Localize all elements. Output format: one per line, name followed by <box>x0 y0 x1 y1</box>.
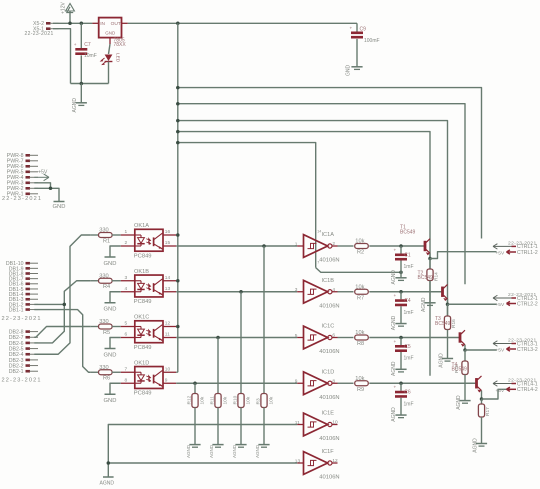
resistor R11 pulldown <box>209 338 228 445</box>
ground GND (OK1D cathode) <box>104 383 121 404</box>
connector pin PWR-6 <box>7 164 38 170</box>
svg-text:IC1E: IC1E <box>322 411 335 417</box>
node base junction <box>399 244 403 248</box>
resistor R7 10k <box>355 284 369 301</box>
resistor R9 10k <box>355 376 369 393</box>
ground AGND (R10) <box>232 444 246 458</box>
ground AGND (C1) <box>391 270 406 285</box>
svg-text:BC549: BC549 <box>435 321 451 327</box>
connector pin DB2-2 <box>9 363 38 369</box>
ground AGND (C6) <box>391 407 406 422</box>
node base junction <box>399 382 403 386</box>
svg-text:C1: C1 <box>404 252 411 258</box>
connector pin PWR-8 <box>7 153 38 159</box>
svg-text:AGND: AGND <box>100 481 115 487</box>
supply arrow on PWR-4 (+12V) <box>34 176 49 178</box>
node pulldown junction <box>239 290 243 294</box>
optocoupler OK1D PC849 <box>121 360 176 396</box>
connector pin CTRL2-1 <box>493 295 538 302</box>
svg-text:PC849: PC849 <box>134 299 152 305</box>
svg-text:5: 5 <box>295 333 298 339</box>
node DB1-2 junction <box>63 303 67 307</box>
svg-text:C6: C6 <box>404 390 411 396</box>
svg-text:+5V: +5V <box>496 348 505 354</box>
resistor R8 10k <box>355 330 369 347</box>
svg-text:40106N: 40106N <box>319 475 339 481</box>
svg-text:CTRL2-2: CTRL2-2 <box>517 301 538 307</box>
ground AGND (R15) <box>456 395 471 410</box>
svg-text:R9: R9 <box>357 387 364 393</box>
svg-text:GND: GND <box>104 398 117 404</box>
wire down to AGND <box>80 84 82 103</box>
ground GND (C9) <box>346 65 363 77</box>
svg-text:2: 2 <box>332 241 335 247</box>
svg-text:330: 330 <box>99 228 109 234</box>
wire DB2-7 to R5 (channel 3 input) <box>34 327 90 338</box>
svg-text:10mF: 10mF <box>84 53 97 59</box>
wire OK1B collector to +5V bus <box>176 280 178 282</box>
ground AGND (C5) <box>391 361 406 376</box>
ground GND (PWR connector) <box>53 202 66 210</box>
wire DB2-6 to R4 (channel 2 input) <box>34 281 90 343</box>
wire OK1C collector to +5V bus <box>176 326 178 328</box>
connector pin DB2-5 <box>9 346 38 352</box>
svg-text:10k: 10k <box>222 396 228 404</box>
resistor R2 10k <box>355 239 369 256</box>
svg-text:22-23-2021: 22-23-2021 <box>2 378 42 384</box>
svg-text:OK1D: OK1D <box>134 360 149 366</box>
svg-text:OK1A: OK1A <box>134 223 149 229</box>
svg-text:IN: IN <box>100 21 105 27</box>
transistor T2 BC549 <box>418 270 448 301</box>
svg-text:330: 330 <box>99 365 109 371</box>
svg-text:OK1B: OK1B <box>134 269 149 275</box>
connector pin DB1-2 <box>9 302 38 308</box>
svg-text:OK1C: OK1C <box>134 315 149 321</box>
svg-text:10k: 10k <box>355 330 364 336</box>
svg-text:GND: GND <box>105 31 116 36</box>
connector pin DB1-5 <box>9 287 38 293</box>
svg-text:15: 15 <box>165 240 171 246</box>
wire OK1D emitter to gate IC1D input <box>176 382 297 384</box>
ground AGND (R3) <box>255 444 269 458</box>
resistor R1 330 <box>91 228 121 245</box>
svg-text:10: 10 <box>332 420 338 426</box>
wire unused gate inputs to AGND <box>108 425 297 478</box>
svg-text:OUT: OUT <box>111 21 121 27</box>
resistor R3 pulldown <box>255 246 274 444</box>
svg-text:AGND: AGND <box>255 444 260 458</box>
net label +5V / connector pin CTRL3-2 <box>496 347 538 354</box>
connector pin DB2-8 <box>9 330 38 336</box>
resistor R15 emitter load <box>454 350 468 400</box>
wire OK1A emitter to gate IC1A input <box>176 245 297 247</box>
svg-text:BC549: BC549 <box>400 229 416 235</box>
svg-text:R7: R7 <box>357 295 364 301</box>
svg-text:GND: GND <box>104 261 117 267</box>
ground AGND (R17) <box>473 438 488 453</box>
svg-text:22-23-2021: 22-23-2021 <box>2 196 42 202</box>
svg-text:LED: LED <box>116 53 121 63</box>
wire T1 emitter to CTRL1-2 <box>430 252 497 259</box>
svg-text:AGND: AGND <box>186 444 191 458</box>
wire DB1-1 to R6 (channel 4 input) <box>34 310 90 373</box>
wire R9 to T4 base <box>369 382 476 384</box>
node +5V bus junction <box>176 22 180 26</box>
svg-text:IC1A: IC1A <box>322 232 335 238</box>
capacitor C5 1mF <box>394 338 414 370</box>
svg-text:+5V: +5V <box>38 170 48 176</box>
svg-text:CTRL1-2: CTRL1-2 <box>517 250 538 256</box>
resistor R14 emitter load <box>427 259 440 303</box>
connector pin DB2-1 <box>9 369 38 375</box>
resistor R4 330 <box>91 273 121 290</box>
svg-text:7: 7 <box>317 261 319 265</box>
node bus junction <box>176 279 180 283</box>
connector pin PWR-3 <box>7 181 38 187</box>
capacitor C7 10mF <box>74 23 97 83</box>
ground AGND (C4) <box>391 315 406 330</box>
svg-text:4: 4 <box>125 286 128 292</box>
voltage regulator IC 7805 <box>92 18 127 49</box>
svg-text:+5V: +5V <box>496 388 505 394</box>
wire T3 emitter <box>464 345 466 350</box>
svg-text:PC849: PC849 <box>134 391 152 397</box>
inverter IC1B 40106N <box>295 278 340 309</box>
wire OK1D collector to +5V bus <box>176 371 178 373</box>
wire ground rail under regulator <box>71 83 109 85</box>
svg-text:R8: R8 <box>357 341 364 347</box>
node bus junction <box>176 102 180 106</box>
svg-text:10k: 10k <box>355 376 364 382</box>
svg-text:40106N: 40106N <box>319 258 339 264</box>
svg-text:1mF: 1mF <box>404 356 414 362</box>
svg-text:R12: R12 <box>186 395 192 404</box>
ground AGND (unused gates) <box>100 477 115 487</box>
svg-text:C5: C5 <box>404 344 411 350</box>
wire +5V feed to T2 collector <box>178 121 448 330</box>
resistor R12 pulldown <box>186 383 205 444</box>
supply +12V symbol <box>61 2 75 24</box>
svg-text:GND: GND <box>104 307 117 313</box>
svg-text:+5V: +5V <box>496 251 505 257</box>
svg-text:14: 14 <box>317 230 321 234</box>
svg-text:PC849: PC849 <box>134 253 152 259</box>
wire gate output to R2 <box>338 245 354 247</box>
svg-text:1: 1 <box>295 241 298 247</box>
svg-text:AGND: AGND <box>391 270 397 285</box>
wire OK1A collector to +5V bus <box>176 234 178 236</box>
svg-text:AGND: AGND <box>391 407 397 422</box>
svg-text:C4: C4 <box>404 298 411 304</box>
node +12V junction <box>68 22 72 26</box>
ground AGND (R11) <box>209 444 223 458</box>
svg-text:R6: R6 <box>103 376 110 382</box>
svg-text:R11: R11 <box>209 396 215 405</box>
svg-text:CTRL4-2: CTRL4-2 <box>517 387 538 393</box>
svg-text:1mF: 1mF <box>404 401 414 407</box>
wire gate output to R9 <box>338 382 354 384</box>
svg-text:+: + <box>74 42 77 47</box>
svg-text:IC1D: IC1D <box>322 369 335 375</box>
svg-text:10k: 10k <box>199 396 205 404</box>
svg-text:22-23-2021: 22-23-2021 <box>25 31 54 37</box>
ground AGND (R14) <box>421 297 436 312</box>
node bus junction <box>176 130 180 134</box>
svg-text:+5V: +5V <box>496 302 505 308</box>
inverter IC1E 40106N <box>295 411 340 442</box>
wire PWR-3 to ground <box>34 183 50 189</box>
svg-text:IC1C: IC1C <box>322 324 335 330</box>
net label +5V / connector pin CTRL1-2 <box>496 250 538 257</box>
svg-text:13: 13 <box>165 286 171 292</box>
svg-text:14: 14 <box>165 275 171 281</box>
optocoupler OK1C PC849 <box>121 315 176 351</box>
svg-text:R10: R10 <box>232 395 238 404</box>
svg-text:3: 3 <box>125 275 128 281</box>
resistor R16 emitter load <box>444 304 457 358</box>
ground GND (OK1C cathode) <box>104 338 121 359</box>
svg-text:AGND: AGND <box>439 353 445 368</box>
svg-text:R4: R4 <box>103 284 110 290</box>
svg-text:9: 9 <box>295 379 298 385</box>
svg-text:10k: 10k <box>268 396 274 404</box>
node base junction <box>399 336 403 340</box>
svg-text:10k: 10k <box>355 284 364 290</box>
wire +5V feed to IC1 VCC pin14 <box>178 143 316 268</box>
wire gate output to R7 <box>338 291 354 293</box>
connector pin DB1-4 <box>9 292 38 298</box>
node pulldown junction <box>193 382 197 386</box>
node emitter junction <box>463 348 467 352</box>
wire T4 emitter <box>481 391 483 399</box>
svg-text:10k: 10k <box>245 396 251 404</box>
svg-text:R3: R3 <box>255 398 261 404</box>
svg-text:4: 4 <box>332 287 335 293</box>
connector pin PWR-7 <box>7 159 38 165</box>
resistor R5 330 <box>91 319 121 336</box>
node bus junction <box>176 233 180 237</box>
wire X5-1 down to ground rail <box>53 29 71 84</box>
resistor R17 emitter load <box>478 399 491 443</box>
connector pin DB1-7 <box>9 277 38 283</box>
ground AGND (R16) <box>439 353 454 368</box>
inverter IC1A 40106N <box>295 230 340 265</box>
svg-text:AGND: AGND <box>473 438 479 453</box>
svg-text:330: 330 <box>99 319 109 325</box>
connector pin DB2-3 <box>9 358 38 364</box>
ground AGND (R12) <box>186 444 200 458</box>
svg-text:IC1F: IC1F <box>322 449 335 455</box>
svg-text:1mF: 1mF <box>404 264 414 270</box>
net label +5V / connector pin CTRL2-2 <box>496 301 538 308</box>
wire OK1B emitter to gate IC1B input <box>176 291 297 293</box>
svg-text:R17: R17 <box>485 407 491 416</box>
svg-text:R5: R5 <box>103 330 110 336</box>
svg-text:10: 10 <box>165 366 171 372</box>
svg-text:AGND: AGND <box>391 315 397 330</box>
svg-text:6: 6 <box>125 332 128 338</box>
connector pin X5-1 <box>33 27 58 33</box>
wire PWR-2 to ground <box>34 188 59 201</box>
connector pin PWR-5 <box>7 170 38 176</box>
ground GND (OK1A cathode) <box>104 246 121 267</box>
svg-text:+: + <box>394 339 397 344</box>
svg-text:5: 5 <box>125 321 128 327</box>
node C7 top junction <box>80 22 84 26</box>
LED D1 <box>101 44 121 84</box>
svg-text:AGND: AGND <box>209 444 214 458</box>
node base junction <box>399 290 403 294</box>
wire +5V vertical bus <box>177 23 179 372</box>
connector pin DB1-8 <box>9 271 38 277</box>
wire T1 emitter <box>429 253 431 258</box>
connector pin DB1-6 <box>9 282 38 288</box>
node emitter junction <box>480 397 484 401</box>
svg-text:GND: GND <box>104 352 117 358</box>
svg-text:7: 7 <box>125 366 128 372</box>
net label +5V / connector pin CTRL4-2 <box>496 387 538 394</box>
svg-text:DB2-1: DB2-1 <box>9 369 24 375</box>
wire DB1-2 joins channel 2 input <box>34 303 64 305</box>
svg-text:+: + <box>394 385 397 390</box>
wire T2 emitter to CTRL2-2 <box>448 303 497 305</box>
capacitor C1 1mF <box>394 246 414 278</box>
svg-text:22-23-2021: 22-23-2021 <box>2 316 42 322</box>
node emitter junction <box>428 257 432 261</box>
node C1 ground junction <box>399 271 403 275</box>
connector pin PWR-2 <box>7 186 38 192</box>
svg-text:R14: R14 <box>434 272 440 281</box>
connector pin CTRL3-1 <box>493 341 538 348</box>
resistor R10 pulldown <box>232 292 251 445</box>
svg-text:11: 11 <box>165 332 170 338</box>
wire +5V feed to T1 collector <box>178 132 430 376</box>
svg-text:AGND: AGND <box>421 297 427 312</box>
node unused-gate junction <box>107 461 111 465</box>
svg-text:DB1-1: DB1-1 <box>9 307 24 313</box>
wire +5V feed to T3 collector <box>178 104 465 285</box>
connector pin DB2-4 <box>9 352 38 358</box>
capacitor C4 1mF <box>394 292 414 324</box>
connector pin DB1-10 <box>6 261 38 267</box>
connector pin DB1-9 <box>9 266 38 272</box>
svg-text:8: 8 <box>332 378 335 384</box>
svg-text:GND: GND <box>53 204 66 210</box>
wire T3 emitter to CTRL3-2 <box>465 349 497 351</box>
connector pin DB2-7 <box>9 335 38 341</box>
svg-text:8: 8 <box>125 377 128 383</box>
svg-text:40106N: 40106N <box>319 436 339 442</box>
optocoupler OK1A PC849 <box>121 223 176 259</box>
svg-text:CTRL3-2: CTRL3-2 <box>517 347 538 353</box>
svg-text:R2: R2 <box>357 250 364 256</box>
optocoupler OK1B PC849 <box>121 269 176 305</box>
inverter IC1F 40106N <box>295 449 340 480</box>
svg-text:1: 1 <box>125 229 128 235</box>
wire R8 to T3 base <box>369 337 460 339</box>
wire OK1C emitter to gate IC1C input <box>176 337 297 339</box>
wire R7 to T2 base <box>369 291 442 293</box>
svg-text:12: 12 <box>165 321 171 327</box>
svg-text:AGND: AGND <box>391 361 397 376</box>
connector pin PWR-1 <box>7 192 38 198</box>
svg-text:BC549: BC549 <box>452 367 468 373</box>
transistor T1 BC549 <box>400 225 430 256</box>
wire R2 to T1 base <box>369 245 425 247</box>
wire DB2-4 to R1 (channel 1 input) <box>34 235 90 354</box>
svg-text:3: 3 <box>295 287 298 293</box>
transistor T4 BC549 <box>452 362 482 393</box>
wire +5V feed to T4 collector <box>178 88 482 239</box>
wire X5-2 to 7805 IN <box>53 22 92 24</box>
ground GND (OK1B cathode) <box>104 292 121 313</box>
node ground rail junction <box>80 82 84 86</box>
ground AGND (power section) <box>72 98 87 113</box>
capacitor C6 1mF <box>394 383 414 415</box>
svg-text:BC549: BC549 <box>418 275 434 281</box>
transistor T3 BC549 <box>435 316 465 347</box>
node bus junction <box>176 86 180 90</box>
svg-text:100mF: 100mF <box>364 38 380 44</box>
svg-text:AGND: AGND <box>456 395 462 410</box>
wire gate output to R8 <box>338 337 354 339</box>
svg-text:10k: 10k <box>355 239 364 245</box>
svg-text:R16: R16 <box>451 319 457 328</box>
svg-text:R1: R1 <box>103 238 110 244</box>
node PWR ground junction <box>49 187 53 191</box>
svg-text:GND: GND <box>346 65 352 77</box>
svg-text:12: 12 <box>332 458 338 464</box>
connector pin PWR-4 <box>7 175 38 181</box>
svg-text:IC1B: IC1B <box>322 278 335 284</box>
svg-text:9: 9 <box>165 377 168 383</box>
svg-text:330: 330 <box>99 273 109 279</box>
svg-text:16: 16 <box>165 229 171 235</box>
svg-text:1mF: 1mF <box>404 310 414 316</box>
node emitter junction <box>446 303 450 307</box>
inverter IC1C 40106N <box>295 324 340 355</box>
capacitor C9 100mF <box>350 23 380 66</box>
svg-text:+: + <box>350 25 353 30</box>
svg-text:40106N: 40106N <box>319 303 339 309</box>
svg-text:40106N: 40106N <box>319 349 339 355</box>
node pulldown junction <box>262 244 266 248</box>
svg-text:78XX: 78XX <box>114 42 127 48</box>
svg-text:AGND: AGND <box>232 444 237 458</box>
svg-text:2: 2 <box>125 240 128 246</box>
connector pin DB2-6 <box>9 341 38 347</box>
svg-text:+12V: +12V <box>61 2 67 14</box>
connector pin DB1-3 <box>9 297 38 303</box>
svg-text:AGND: AGND <box>72 98 78 113</box>
connector pin X5-2 <box>33 21 58 27</box>
svg-text:PC849: PC849 <box>134 345 152 351</box>
node pulldown junction <box>216 336 220 340</box>
wire T2 emitter <box>447 299 449 304</box>
svg-text:C9: C9 <box>360 27 367 33</box>
svg-text:+: + <box>394 247 397 252</box>
node bus junction <box>176 141 180 145</box>
resistor R6 330 <box>91 365 121 382</box>
connector pin DB1-1 <box>9 307 38 313</box>
wire T4 emitter to CTRL4-2 <box>482 389 507 399</box>
svg-text:C7: C7 <box>84 42 91 48</box>
connector pin CTRL4-1 <box>493 381 538 388</box>
svg-text:40106N: 40106N <box>319 395 339 401</box>
node bus junction <box>176 119 180 123</box>
connector pin CTRL1-1 <box>493 244 538 251</box>
